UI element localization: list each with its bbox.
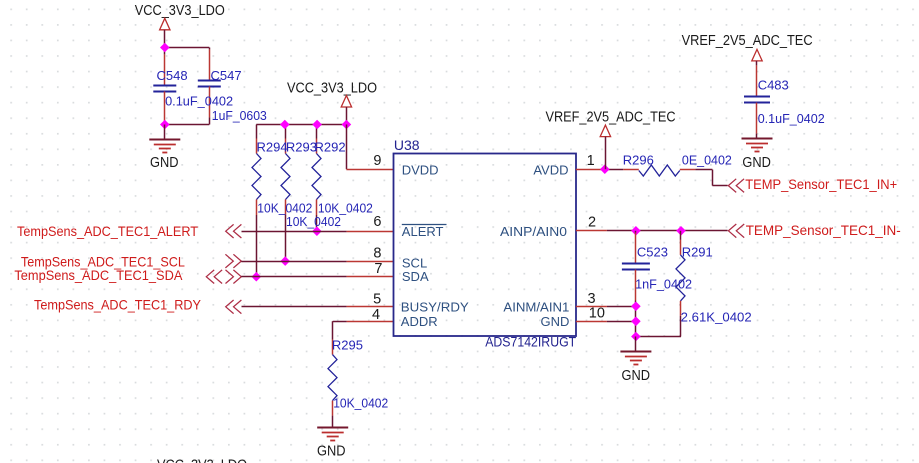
svg-text:0E_0402: 0E_0402 — [682, 153, 732, 168]
svg-text:DVDD: DVDD — [402, 162, 439, 177]
svg-text:GND: GND — [150, 154, 179, 171]
svg-text:ALERT: ALERT — [402, 224, 444, 239]
svg-text:AVDD: AVDD — [533, 162, 568, 177]
svg-text:GND: GND — [317, 442, 346, 459]
svg-text:R293: R293 — [286, 139, 317, 154]
svg-text:ADS7142IRUGT: ADS7142IRUGT — [485, 334, 576, 350]
svg-text:TempSens_ADC_TEC1_ALERT: TempSens_ADC_TEC1_ALERT — [17, 223, 198, 239]
svg-text:1uF_0603: 1uF_0603 — [212, 108, 267, 123]
svg-text:BUSY/RDY: BUSY/RDY — [401, 299, 469, 314]
svg-text:VREF_2V5_ADC_TEC: VREF_2V5_ADC_TEC — [682, 33, 813, 49]
svg-text:C483: C483 — [758, 78, 789, 93]
svg-text:R295: R295 — [332, 338, 363, 353]
svg-text:VCC_3V3_LDO: VCC_3V3_LDO — [287, 81, 377, 97]
svg-text:1: 1 — [587, 153, 595, 169]
svg-text:GND: GND — [541, 314, 570, 329]
svg-text:ADDR: ADDR — [401, 314, 438, 329]
svg-text:C548: C548 — [157, 68, 188, 83]
svg-text:0.1uF_0402: 0.1uF_0402 — [165, 94, 233, 109]
svg-text:10K_0402: 10K_0402 — [333, 396, 388, 411]
svg-text:2.61K_0402: 2.61K_0402 — [681, 309, 752, 324]
svg-text:VCC_3V3_LDO: VCC_3V3_LDO — [135, 3, 225, 19]
svg-text:U38: U38 — [394, 137, 420, 153]
svg-text:VCC_3V3_LDO: VCC_3V3_LDO — [157, 458, 247, 463]
svg-text:4: 4 — [372, 307, 380, 323]
svg-text:10K_0402: 10K_0402 — [286, 214, 341, 229]
svg-text:AINP/AIN0: AINP/AIN0 — [500, 224, 567, 239]
svg-text:R296: R296 — [623, 152, 654, 167]
svg-text:GND: GND — [742, 154, 771, 171]
svg-text:GND: GND — [622, 367, 651, 384]
svg-text:TempSens_ADC_TEC1_SDA: TempSens_ADC_TEC1_SDA — [14, 267, 183, 283]
svg-text:TEMP_Sensor_TEC1_IN-: TEMP_Sensor_TEC1_IN- — [746, 222, 901, 238]
svg-text:TEMP_Sensor_TEC1_IN+: TEMP_Sensor_TEC1_IN+ — [745, 176, 897, 192]
svg-text:6: 6 — [373, 214, 381, 230]
svg-text:R292: R292 — [315, 139, 346, 154]
svg-text:TempSens_ADC_TEC1_RDY: TempSens_ADC_TEC1_RDY — [34, 297, 202, 313]
svg-text:AINM/AIN1: AINM/AIN1 — [503, 299, 569, 314]
svg-text:2: 2 — [588, 214, 596, 230]
svg-text:SDA: SDA — [402, 269, 429, 284]
svg-text:7: 7 — [374, 261, 382, 277]
svg-text:C523: C523 — [637, 244, 668, 259]
svg-text:R294: R294 — [257, 139, 288, 154]
svg-text:5: 5 — [373, 292, 381, 308]
svg-text:10K_0402: 10K_0402 — [318, 201, 373, 216]
svg-text:C547: C547 — [211, 68, 242, 83]
svg-text:VREF_2V5_ADC_TEC: VREF_2V5_ADC_TEC — [546, 109, 676, 125]
svg-text:R291: R291 — [682, 244, 713, 259]
svg-text:8: 8 — [373, 246, 381, 262]
svg-text:10: 10 — [589, 306, 605, 322]
svg-text:0.1uF_0402: 0.1uF_0402 — [758, 111, 825, 126]
svg-text:9: 9 — [373, 153, 381, 169]
